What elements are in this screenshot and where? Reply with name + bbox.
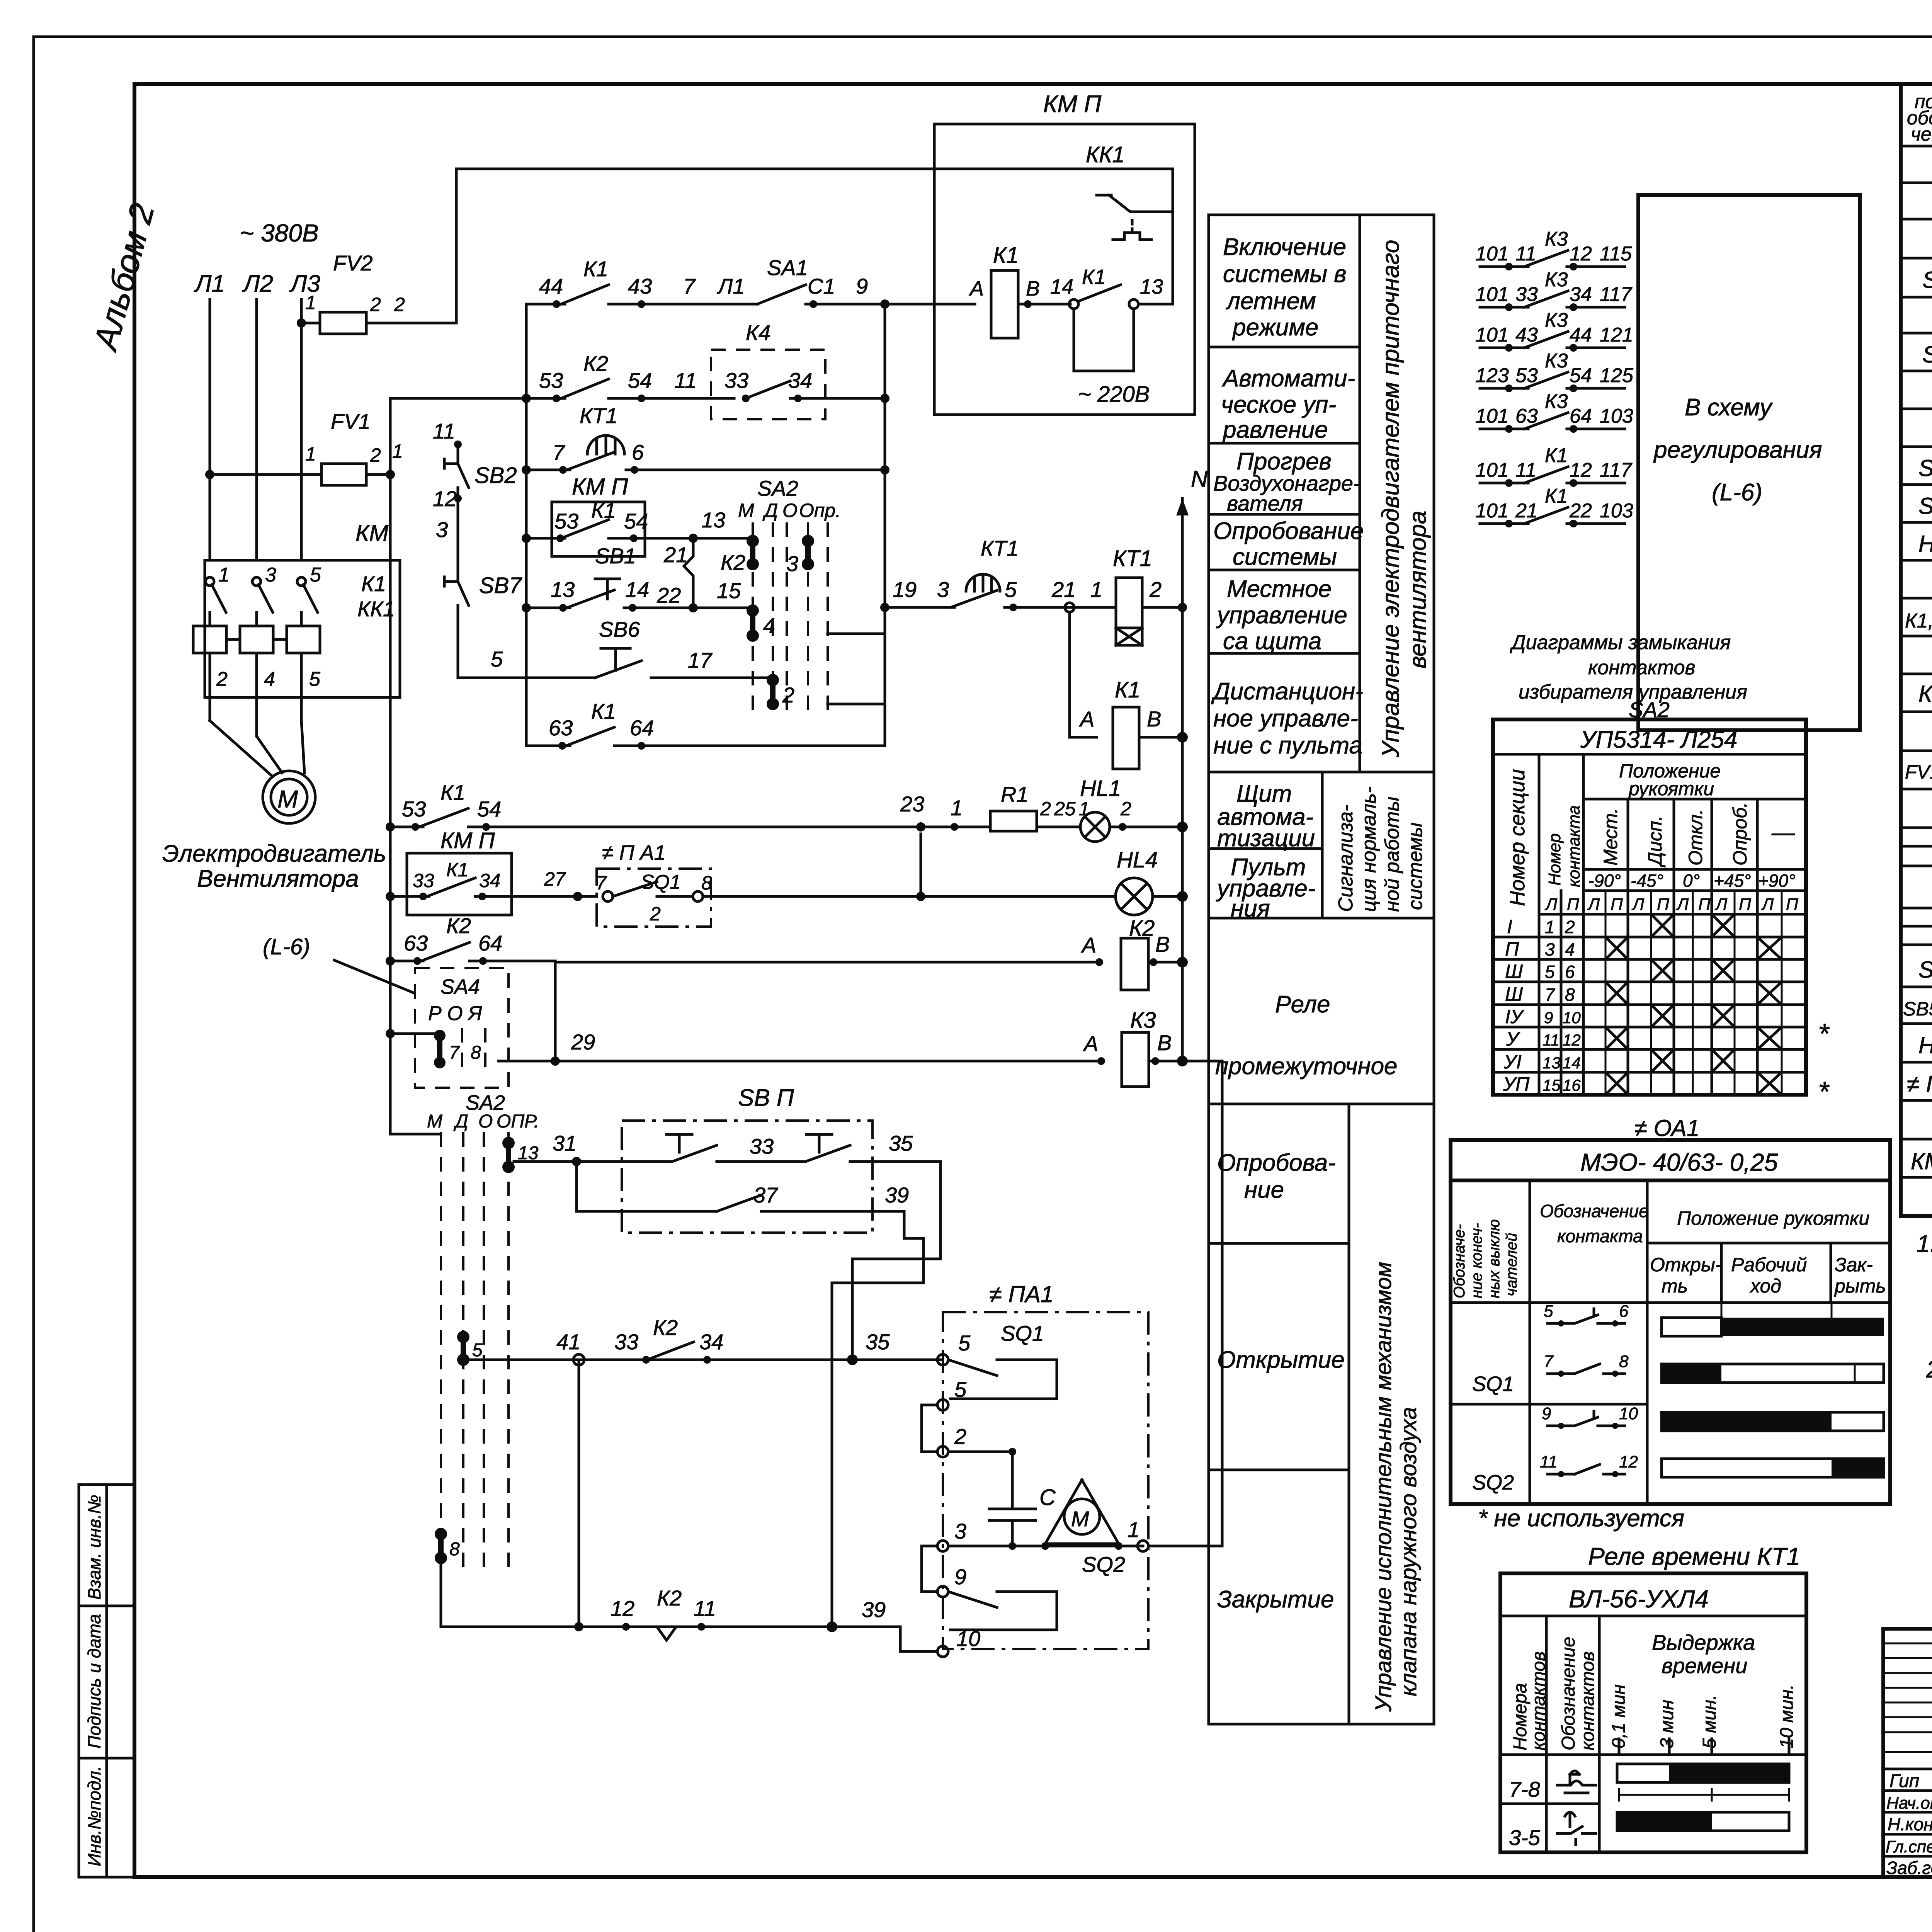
svg-text:Р О Я: Р О Я bbox=[428, 1002, 482, 1025]
svg-text:А: А bbox=[1081, 933, 1096, 957]
svg-text:41: 41 bbox=[556, 1330, 580, 1354]
svg-text:117: 117 bbox=[1600, 459, 1633, 481]
left rotated table bbox=[79, 1485, 134, 1877]
svg-text:К1: К1 bbox=[583, 257, 608, 281]
contact K2 53-54 / relay K4 contact 33-34 rung bbox=[526, 320, 889, 419]
svg-text:2: 2 bbox=[650, 903, 661, 925]
svg-text:15: 15 bbox=[1543, 1076, 1561, 1094]
fuse FV2 bbox=[297, 318, 306, 328]
svg-text:43: 43 bbox=[1515, 324, 1538, 346]
svg-text:103: 103 bbox=[1600, 405, 1633, 427]
svg-text:54: 54 bbox=[1570, 364, 1592, 387]
thermal overload KK1 heater bbox=[193, 626, 320, 653]
svg-text:34: 34 bbox=[699, 1330, 723, 1354]
svg-text:SA2: SA2 bbox=[757, 476, 798, 500]
svg-text:Л: Л bbox=[1714, 895, 1728, 914]
svg-text:К3: К3 bbox=[1545, 228, 1568, 250]
svg-text:контакта: контакта bbox=[1565, 805, 1583, 887]
svg-text:Заб.го: Заб.го bbox=[1886, 1858, 1932, 1878]
svg-text:1. Схема выполнена для приточн: 1. Схема выполнена для приточной системы… bbox=[1917, 1231, 1932, 1257]
svg-text:SB2: SB2 bbox=[1918, 493, 1932, 519]
svg-text:Диаграммы замыкания: Диаграммы замыкания bbox=[1510, 631, 1731, 654]
symbols col2 bbox=[1557, 1771, 1596, 1845]
svg-text:4: 4 bbox=[264, 668, 275, 690]
svg-text:64: 64 bbox=[478, 931, 502, 955]
svg-text:контактов: контактов bbox=[1529, 1651, 1549, 1750]
net ~220V bbox=[1074, 309, 1134, 371]
svg-text:1: 1 bbox=[951, 796, 963, 820]
svg-text:О: О bbox=[782, 500, 798, 521]
svg-text:П: П bbox=[1739, 895, 1751, 914]
contact K1 33-34, limit switch SQ1 7-8, lamp HL4 rung bbox=[386, 828, 1188, 927]
svg-text:8: 8 bbox=[449, 1539, 460, 1560]
svg-text:16: 16 bbox=[1563, 1076, 1581, 1094]
svg-text:≠ П А1: ≠ П А1 bbox=[602, 841, 666, 864]
svg-text:11: 11 bbox=[674, 368, 697, 393]
svg-text:тизации: тизации bbox=[1217, 825, 1315, 852]
svg-text:53: 53 bbox=[554, 509, 578, 533]
svg-text:35: 35 bbox=[866, 1330, 890, 1354]
svg-text:5: 5 bbox=[472, 1340, 483, 1361]
svg-text:11: 11 bbox=[1540, 1452, 1558, 1471]
svg-text:63: 63 bbox=[1515, 405, 1538, 427]
row lines bbox=[1901, 182, 1932, 184]
svg-text:Л: Л bbox=[1587, 895, 1600, 914]
svg-text:44: 44 bbox=[1570, 324, 1592, 346]
svg-text:34: 34 bbox=[479, 870, 501, 891]
svg-text:12: 12 bbox=[1619, 1452, 1638, 1471]
svg-text:режиме: режиме bbox=[1232, 314, 1318, 341]
svg-text:системы: системы bbox=[1233, 544, 1337, 570]
svg-text:Гл.спец: Гл.спец bbox=[1886, 1837, 1932, 1856]
svg-text:6: 6 bbox=[1619, 1302, 1629, 1321]
svg-text:2: 2 bbox=[1040, 798, 1051, 820]
svg-text:УП5314- Л254: УП5314- Л254 bbox=[1580, 726, 1737, 753]
SA2 diagram table bbox=[1493, 631, 1830, 1107]
svg-text:SA1: SA1 bbox=[1922, 267, 1932, 293]
svg-text:3-5: 3-5 bbox=[1509, 1825, 1541, 1850]
svg-text:121: 121 bbox=[1600, 324, 1633, 346]
svg-text:Управление электродвигателем: Управление электродвигателем приточнаго bbox=[1378, 240, 1404, 758]
svg-text:К2: К2 bbox=[657, 1586, 682, 1610]
svg-text:Щит: Щит bbox=[1236, 781, 1292, 807]
svg-text:К1: К1 bbox=[1082, 265, 1106, 289]
svg-text:Д: Д bbox=[762, 500, 778, 521]
svg-text:5: 5 bbox=[491, 647, 503, 671]
svg-text:Местное: Местное bbox=[1227, 576, 1332, 602]
svg-text:системы: системы bbox=[1404, 823, 1427, 910]
svg-text:С: С bbox=[1039, 1485, 1056, 1510]
svg-text:ческое уп-: ческое уп- bbox=[1221, 391, 1336, 418]
svg-text:10: 10 bbox=[1563, 1009, 1581, 1027]
svg-text:33: 33 bbox=[614, 1330, 638, 1354]
svg-text:2: 2 bbox=[782, 683, 794, 707]
svg-text:7: 7 bbox=[683, 274, 696, 298]
svg-text:Выдержка: Выдержка bbox=[1652, 1630, 1755, 1655]
svg-text:К1: К1 bbox=[440, 780, 465, 804]
K3/K1 contact rows + box bbox=[1475, 195, 1860, 730]
svg-text:11: 11 bbox=[1515, 243, 1536, 265]
svg-text:ной работы: ной работы bbox=[1381, 797, 1403, 912]
svg-text:10 мин.: 10 мин. bbox=[1777, 1684, 1797, 1748]
wire 1 from actuator to K3 rung bbox=[1148, 1061, 1222, 1546]
svg-text:7: 7 bbox=[553, 440, 565, 464]
svg-text:4: 4 bbox=[1565, 939, 1575, 959]
wire collector vertical bbox=[884, 304, 886, 746]
notes bbox=[1917, 1231, 1932, 1383]
svg-text:6: 6 bbox=[1565, 962, 1575, 982]
lower actuator bbox=[427, 1061, 1222, 1657]
svg-text:К3: К3 bbox=[1545, 350, 1568, 372]
svg-text:22: 22 bbox=[656, 583, 681, 607]
svg-text:КМ П: КМ П bbox=[1911, 1148, 1932, 1174]
svg-text:115: 115 bbox=[1600, 243, 1632, 265]
svg-text:Обозначение: Обозначение bbox=[1540, 1201, 1649, 1221]
svg-text:ВЛ-56-УХЛ4: ВЛ-56-УХЛ4 bbox=[1569, 1585, 1709, 1613]
svg-text:КМ: КМ bbox=[355, 520, 388, 546]
svg-text:FV1: FV1 bbox=[331, 409, 371, 434]
svg-text:КТ1: КТ1 bbox=[1113, 546, 1152, 571]
selector SA2 upper section bbox=[738, 476, 885, 717]
svg-text:12: 12 bbox=[1563, 1031, 1581, 1049]
svg-text:А: А bbox=[969, 277, 984, 300]
svg-text:12: 12 bbox=[1570, 459, 1592, 481]
svg-text:Зак-: Зак- bbox=[1835, 1254, 1873, 1276]
svg-text:SQ1: SQ1 bbox=[1001, 1321, 1044, 1345]
svg-text:SB П: SB П bbox=[738, 1085, 794, 1111]
svg-text:Гип: Гип bbox=[1889, 1771, 1919, 1791]
svg-text:Л: Л bbox=[1676, 895, 1689, 914]
svg-text:К3: К3 bbox=[1545, 309, 1568, 332]
ladder bbox=[263, 255, 1222, 1134]
svg-text:1: 1 bbox=[305, 443, 316, 465]
svg-text:53: 53 bbox=[539, 368, 563, 393]
svg-text:HL1: HL1 bbox=[1918, 531, 1932, 557]
svg-text:2: 2 bbox=[1120, 798, 1131, 820]
contact K2 33-34 rung 41-35 bbox=[463, 1315, 943, 1365]
svg-text:(L-6): (L-6) bbox=[1712, 479, 1762, 506]
svg-text:Вентилятора: Вентилятора bbox=[197, 866, 359, 892]
svg-text:SB2: SB2 bbox=[474, 463, 517, 488]
svg-text:53: 53 bbox=[1515, 364, 1538, 387]
svg-text:К2: К2 bbox=[583, 351, 608, 376]
svg-text:9: 9 bbox=[1542, 1404, 1551, 1423]
svg-text:В схему: В схему bbox=[1685, 394, 1773, 421]
svg-text:К4: К4 bbox=[746, 320, 770, 345]
time relay coil KT1 rung 19-3-5-21-1-2 bbox=[880, 536, 1187, 645]
svg-text:Электродвигатель: Электродвигатель bbox=[162, 840, 386, 867]
contact K1 14-13 bbox=[1069, 299, 1078, 309]
svg-text:SQ1: SQ1 bbox=[641, 871, 681, 893]
svg-text:Ш: Ш bbox=[1505, 961, 1523, 982]
svg-text:Д: Д bbox=[453, 1111, 468, 1132]
svg-text:22: 22 bbox=[1569, 500, 1592, 522]
lower stack bbox=[1348, 1104, 1350, 1724]
svg-text:≠ ПА1: ≠ ПА1 bbox=[989, 1281, 1053, 1307]
svg-text:21: 21 bbox=[1051, 577, 1076, 602]
svg-text:Обозначение: Обозначение bbox=[1558, 1637, 1579, 1750]
motor M (fan) bbox=[263, 771, 315, 823]
svg-text:Номер: Номер bbox=[1545, 833, 1564, 886]
svg-text:SA4: SA4 bbox=[440, 975, 480, 998]
svg-text:SB5,SB7,: SB5,SB7, bbox=[1903, 998, 1932, 1020]
svg-text:13: 13 bbox=[1543, 1054, 1561, 1072]
svg-text:чателей: чателей bbox=[1503, 1233, 1520, 1296]
actuator P A1 with SQ1/SQ2 limit switches, capacitor C, motor M bbox=[922, 1281, 1148, 1657]
svg-text:КТ1: КТ1 bbox=[580, 403, 617, 428]
svg-text:21: 21 bbox=[1515, 500, 1538, 522]
svg-text:3: 3 bbox=[265, 564, 276, 586]
svg-text:Л: Л bbox=[1761, 895, 1774, 914]
svg-text:К1: К1 bbox=[591, 498, 616, 522]
svg-text:13: 13 bbox=[551, 577, 575, 602]
svg-text:11: 11 bbox=[433, 419, 455, 443]
contact K2 NC 12-11 rung to wire 39 bbox=[441, 1360, 937, 1651]
svg-text:33: 33 bbox=[1515, 283, 1538, 306]
svg-text:ние: ние bbox=[1244, 1177, 1284, 1203]
svg-text:~ 380В: ~ 380В bbox=[240, 219, 319, 247]
svg-text:39: 39 bbox=[885, 1183, 909, 1207]
selector SA4 contacts 7-8 bbox=[386, 968, 509, 1088]
svg-text:ть: ть bbox=[1662, 1275, 1688, 1297]
svg-text:N: N bbox=[1191, 466, 1208, 492]
svg-text:К1: К1 bbox=[361, 571, 386, 596]
svg-text:5: 5 bbox=[958, 1331, 971, 1355]
svg-text:SB1: SB1 bbox=[595, 544, 636, 568]
svg-text:вентилятора: вентилятора bbox=[1405, 511, 1431, 668]
rele cell bbox=[1209, 1103, 1434, 1105]
svg-text:М: М bbox=[738, 500, 754, 521]
svg-text:101: 101 bbox=[1475, 500, 1509, 522]
svg-text:Нач.отд: Нач.отд bbox=[1886, 1794, 1932, 1813]
svg-text:R1: R1 bbox=[1001, 782, 1029, 806]
title block bbox=[1883, 1629, 1932, 1932]
svg-text:9: 9 bbox=[954, 1565, 966, 1589]
svg-text:101: 101 bbox=[1475, 324, 1509, 346]
svg-text:К2: К2 bbox=[446, 913, 471, 938]
svg-text:Номер секции: Номер секции bbox=[1506, 769, 1529, 906]
svg-text:63: 63 bbox=[549, 716, 573, 740]
svg-text:17: 17 bbox=[688, 648, 713, 672]
pushbutton post SB P contacts 31-33-35 / 37-39 bbox=[514, 1085, 940, 1233]
svg-text:-90°: -90° bbox=[1588, 871, 1621, 891]
svg-text:8: 8 bbox=[1565, 985, 1575, 1005]
svg-text:вателя: вателя bbox=[1227, 491, 1303, 515]
KMP top box bbox=[927, 91, 1195, 415]
svg-text:КК1: КК1 bbox=[1086, 142, 1125, 167]
svg-text:регулирования: регулирования bbox=[1653, 437, 1822, 463]
svg-text:14: 14 bbox=[1050, 275, 1073, 298]
svg-text:11: 11 bbox=[1515, 459, 1536, 481]
svg-text:11: 11 bbox=[1543, 1031, 1560, 1049]
svg-text:Положение рукоятки: Положение рукоятки bbox=[1677, 1207, 1869, 1229]
svg-text:14: 14 bbox=[1563, 1054, 1581, 1072]
svg-text:3: 3 bbox=[954, 1519, 966, 1543]
svg-text:101: 101 bbox=[1475, 459, 1509, 481]
svg-text:П: П bbox=[1657, 895, 1669, 914]
bars bbox=[1617, 1764, 1789, 1782]
SQ1 contact diagrams bbox=[1662, 1303, 1884, 1477]
svg-text:1: 1 bbox=[1090, 577, 1102, 602]
svg-text:Включение: Включение bbox=[1223, 234, 1346, 260]
svg-text:1: 1 bbox=[1128, 1517, 1139, 1542]
svg-text:ния: ния bbox=[1231, 895, 1270, 922]
resistor R1 and lamp HL1 rung 53-54-23-1-2-25-1-2 bbox=[386, 776, 1188, 842]
svg-text:4: 4 bbox=[763, 613, 775, 638]
svg-text:С1: С1 bbox=[808, 274, 835, 298]
svg-text:клапана наружного воздуха: клапана наружного воздуха bbox=[1396, 1407, 1421, 1696]
svg-text:Открытие: Открытие bbox=[1217, 1347, 1345, 1373]
svg-text:М: М bbox=[277, 785, 298, 813]
svg-text:+90°: +90° bbox=[1758, 871, 1795, 891]
svg-text:Н.конт: Н.конт bbox=[1888, 1814, 1932, 1834]
svg-text:117: 117 bbox=[1600, 283, 1633, 306]
svg-text:SQ1: SQ1 bbox=[1472, 1372, 1514, 1396]
svg-text:КМ П: КМ П bbox=[1043, 91, 1101, 117]
svg-text:43: 43 bbox=[628, 274, 652, 298]
svg-text:34: 34 bbox=[1570, 283, 1592, 306]
svg-text:ных выклю: ных выклю bbox=[1486, 1219, 1503, 1298]
svg-text:SB6: SB6 bbox=[599, 617, 640, 641]
svg-text:П: П bbox=[1611, 895, 1623, 914]
svg-text:5: 5 bbox=[954, 1377, 967, 1401]
svg-text:І: І bbox=[1507, 916, 1512, 937]
svg-text:А: А bbox=[1079, 707, 1094, 731]
svg-text:13: 13 bbox=[701, 508, 725, 532]
VL table bbox=[1478, 1505, 1806, 1852]
button SB6 rung 5-17 bbox=[458, 617, 772, 678]
wire phase L3 bbox=[300, 299, 303, 560]
svg-text:1: 1 bbox=[218, 564, 230, 586]
svg-text:контактов: контактов bbox=[1578, 1651, 1598, 1750]
svg-text:УІ: УІ bbox=[1503, 1051, 1522, 1073]
svg-text:системы в: системы в bbox=[1223, 261, 1347, 287]
svg-text:31: 31 bbox=[553, 1131, 577, 1155]
svg-text:Л2: Л2 bbox=[242, 270, 273, 297]
svg-text:54: 54 bbox=[628, 368, 652, 393]
svg-text:Мест.: Мест. bbox=[1600, 808, 1621, 866]
vertical 2383 from 2158 to 2320 bbox=[920, 834, 922, 896]
svg-text:33: 33 bbox=[413, 870, 434, 891]
svg-text:Сигнализа-: Сигнализа- bbox=[1335, 805, 1357, 912]
svg-text:5: 5 bbox=[1005, 577, 1017, 602]
svg-text:34: 34 bbox=[788, 368, 812, 393]
svg-text:3: 3 bbox=[937, 577, 949, 602]
svg-text:ОПР.: ОПР. bbox=[497, 1111, 539, 1132]
svg-text:П: П bbox=[1567, 895, 1579, 914]
svg-text:54: 54 bbox=[477, 797, 501, 821]
svg-text:7: 7 bbox=[596, 872, 607, 894]
svg-text:Дистанцион-: Дистанцион- bbox=[1211, 678, 1363, 705]
wire phase L1 bbox=[209, 299, 211, 560]
svg-text:8: 8 bbox=[471, 1043, 481, 1063]
svg-text:29: 29 bbox=[571, 1030, 595, 1054]
svg-text:64: 64 bbox=[630, 716, 654, 740]
svg-text:Рабочий: Рабочий bbox=[1731, 1254, 1807, 1276]
svg-text:К2: К2 bbox=[721, 550, 745, 575]
svg-text:Опр.: Опр. bbox=[799, 500, 841, 521]
svg-text:НL4: НL4 bbox=[1117, 847, 1158, 872]
svg-text:контактов: контактов bbox=[1588, 656, 1696, 679]
svg-text:В: В bbox=[1026, 277, 1040, 300]
svg-text:123: 123 bbox=[1475, 364, 1509, 387]
svg-text:1: 1 bbox=[305, 292, 316, 313]
svg-text:13: 13 bbox=[1140, 275, 1163, 298]
svg-text:125: 125 bbox=[1600, 364, 1634, 387]
svg-text:В: В bbox=[1155, 932, 1170, 956]
SQ1 symbols bbox=[1540, 1302, 1638, 1477]
svg-text:В: В bbox=[1147, 707, 1161, 731]
wire 35 and wire 39 staircase bbox=[852, 1162, 940, 1360]
svg-text:SA1: SA1 bbox=[767, 255, 808, 280]
contact K1 63-64 rung bbox=[526, 699, 885, 750]
svg-text:К1: К1 bbox=[446, 859, 468, 881]
svg-text:7-8: 7-8 bbox=[1509, 1777, 1540, 1801]
svg-text:12: 12 bbox=[611, 1596, 634, 1621]
svg-text:К3: К3 bbox=[1130, 1008, 1156, 1033]
svg-text:Реле времени КТ1: Реле времени КТ1 bbox=[1588, 1543, 1800, 1570]
svg-text:10: 10 bbox=[1619, 1404, 1638, 1423]
node N bus bbox=[1181, 498, 1184, 1059]
svg-text:37: 37 bbox=[753, 1183, 778, 1207]
svg-text:7: 7 bbox=[449, 1043, 460, 1063]
svg-text:Дисп.: Дисп. bbox=[1644, 816, 1666, 867]
svg-text:Опроб.: Опроб. bbox=[1729, 802, 1751, 866]
svg-text:(L-6): (L-6) bbox=[263, 934, 310, 959]
svg-text:101: 101 bbox=[1475, 283, 1509, 306]
svg-text:5: 5 bbox=[309, 668, 321, 690]
parts table bbox=[1901, 84, 1932, 1216]
svg-text:Л: Л bbox=[1544, 895, 1558, 914]
svg-text:3 мин: 3 мин bbox=[1657, 1700, 1677, 1748]
svg-text:10: 10 bbox=[956, 1626, 980, 1651]
svg-text:Инв.№подл.: Инв.№подл. bbox=[84, 1766, 104, 1866]
svg-text:SBО: SBО bbox=[1918, 957, 1932, 983]
svg-text:ІУ: ІУ bbox=[1505, 1006, 1525, 1027]
svg-text:23: 23 bbox=[900, 792, 924, 816]
svg-text:А: А bbox=[1083, 1031, 1098, 1056]
svg-text:В: В bbox=[1157, 1031, 1172, 1055]
svg-text:ход: ход bbox=[1750, 1275, 1781, 1297]
svg-text:101: 101 bbox=[1475, 405, 1509, 427]
svg-text:КМ П: КМ П bbox=[440, 828, 495, 853]
svg-text:*: * bbox=[1818, 1019, 1830, 1049]
contact K1 53-54 in KM P aux box bbox=[526, 474, 753, 556]
svg-text:15: 15 bbox=[717, 578, 741, 603]
svg-text:9: 9 bbox=[1544, 1009, 1553, 1027]
svg-text:7: 7 bbox=[1544, 1352, 1554, 1371]
svg-text:21: 21 bbox=[663, 543, 688, 567]
svg-text:са щита: са щита bbox=[1223, 628, 1321, 655]
svg-text:5: 5 bbox=[1544, 1302, 1553, 1321]
buttons SB2 / SB7 chain bbox=[433, 419, 522, 678]
svg-text:64: 64 bbox=[1570, 405, 1592, 427]
middle text columns bbox=[1209, 215, 1434, 1724]
svg-text:К1: К1 bbox=[1115, 677, 1140, 702]
svg-text:К1: К1 bbox=[1545, 485, 1568, 507]
svg-text:SA2: SA2 bbox=[466, 1091, 505, 1114]
svg-text:3: 3 bbox=[1545, 939, 1555, 959]
header verticals bbox=[1538, 754, 1541, 1095]
svg-text:летнем: летнем bbox=[1226, 288, 1316, 315]
svg-text:рыть: рыть bbox=[1834, 1275, 1886, 1297]
svg-text:SA2: SA2 bbox=[1922, 342, 1932, 367]
svg-text:63: 63 bbox=[404, 931, 428, 955]
svg-text:МЭО- 40/63- 0,25: МЭО- 40/63- 0,25 bbox=[1580, 1148, 1778, 1176]
svg-text:Закрытие: Закрытие bbox=[1217, 1586, 1334, 1613]
svg-text:2: 2 bbox=[394, 294, 405, 315]
svg-text:2: 2 bbox=[1149, 577, 1162, 602]
